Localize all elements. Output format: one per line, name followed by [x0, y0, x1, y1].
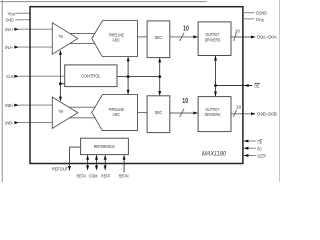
arrowhead T/B [244, 140, 249, 143]
wire output drivers A to D9A-D0A [231, 36, 251, 38]
wire DEC B to output drivers B [170, 112, 198, 114]
arrowhead control into DEC B [158, 91, 161, 96]
svg-text:DEC: DEC [155, 110, 162, 115]
arrowhead COM up [95, 155, 98, 160]
wire control to DECs vertical [159, 58, 161, 95]
wire INA- [19, 46, 52, 48]
arrowhead control into ADC A [127, 57, 130, 62]
wire CLK [19, 75, 65, 77]
wire INB- [19, 122, 52, 124]
svg-text:10: 10 [236, 104, 242, 109]
svg-text:SLEEP: SLEEP [257, 154, 266, 159]
bus slash output B [233, 110, 236, 117]
svg-text:REFERENCE: REFERENCE [94, 144, 115, 149]
svg-text:10: 10 [182, 96, 188, 105]
arrowhead COM down [95, 166, 98, 171]
pin label OE overline [254, 82, 260, 84]
node OE junction [214, 84, 217, 87]
wire output drivers B to D9B-D0B [231, 113, 251, 115]
svg-text:INB+: INB+ [5, 103, 13, 108]
bus slash DEC A to drivers [180, 33, 185, 41]
op-amp T/H B [52, 97, 78, 128]
wire ADC A to DEC A [138, 36, 148, 38]
arrowhead INA+ [14, 28, 19, 31]
wire control output horizontal [117, 76, 160, 78]
arrowhead control into DEC A [158, 58, 161, 63]
wire REFOUT horizontal [70, 146, 81, 148]
DEC B block [147, 96, 170, 133]
svg-text:ADC: ADC [112, 37, 120, 42]
arrowhead bus into output drivers A [193, 35, 198, 38]
output drivers B block [198, 97, 231, 132]
svg-text:T/H: T/H [58, 34, 63, 39]
wire REFIN [123, 156, 125, 173]
arrowhead OE into output drivers A [214, 56, 217, 61]
wire control to ADCs vertical [127, 57, 129, 94]
svg-text:INA+: INA+ [5, 27, 13, 32]
ADC B pipeline block [92, 95, 138, 131]
svg-text:10: 10 [183, 23, 189, 32]
arrowhead D9B-D0B [251, 112, 256, 115]
wire T/H A to ADC A lower [69, 43, 96, 45]
svg-text:OE: OE [254, 83, 259, 88]
wire OE to output drivers vertical [215, 56, 217, 96]
svg-text:REFN: REFN [77, 173, 86, 178]
wire DEC A to output drivers A [170, 36, 198, 38]
wire OVDD [243, 18, 254, 20]
svg-text:REFIN: REFIN [119, 173, 129, 178]
arrowhead INA- [14, 46, 19, 49]
arrowhead D9A-D0A [251, 36, 256, 39]
arrowhead clock into T/H A [59, 50, 62, 55]
arrowhead REFN up [86, 155, 89, 160]
arrowhead control into ADC B [127, 90, 130, 95]
svg-text:MAX1180: MAX1180 [202, 152, 227, 158]
svg-text:DRIVERS: DRIVERS [205, 112, 221, 117]
node control ADC junction [127, 75, 130, 78]
arrowhead REFP down [104, 166, 107, 171]
arrowhead SLEEP [244, 154, 249, 157]
svg-text:T/H: T/H [58, 109, 63, 114]
wire VDD [15, 12, 30, 14]
arrowhead INB+ [14, 104, 19, 107]
svg-text:COM: COM [89, 173, 98, 178]
reference block [81, 138, 129, 154]
wire clock vertical [59, 51, 61, 101]
control block [65, 65, 117, 87]
pin label T/B overline [260, 138, 262, 140]
wire T/B [244, 140, 256, 142]
arrowhead REFIN up [123, 155, 126, 160]
bus slash DEC B to drivers [180, 109, 185, 117]
svg-text:REFOUT: REFOUT [52, 167, 68, 172]
arrowhead OE into output drivers B [214, 92, 217, 97]
svg-text:VDD: VDD [8, 11, 16, 17]
wire COM [96, 155, 98, 170]
wire GND [15, 19, 30, 21]
arrowhead REFP up [104, 155, 107, 160]
svg-text:ADC: ADC [112, 112, 120, 117]
arrowhead bus into output drivers B [193, 112, 198, 115]
svg-text:DRIVERS: DRIVERS [205, 37, 221, 42]
wire REFOUT vertical [69, 147, 71, 170]
wire PD [244, 147, 256, 149]
wire OGND [243, 12, 254, 14]
arrowhead REFN down [86, 166, 89, 171]
op-amp T/H A [52, 23, 78, 54]
svg-text:CONTROL: CONTROL [81, 74, 101, 79]
svg-text:REFP: REFP [101, 173, 110, 178]
arrowhead REFOUT [68, 166, 71, 171]
wire REFP [104, 155, 106, 170]
wire REFN [87, 155, 89, 170]
arrowhead CLK [14, 75, 19, 78]
arrowhead INB- [14, 121, 19, 124]
node clock junction [59, 82, 62, 85]
svg-text:GND: GND [6, 17, 15, 22]
svg-text:INB-: INB- [5, 120, 13, 125]
svg-text:D9B–D0B: D9B–D0B [257, 112, 277, 117]
page border line right [279, 0, 281, 182]
wire T/H A to ADC A upper [69, 32, 96, 34]
svg-text:CLK: CLK [6, 74, 14, 79]
wire INA+ [19, 28, 52, 30]
svg-text:INA-: INA- [5, 45, 13, 50]
svg-text:D9A–D0A: D9A–D0A [257, 35, 277, 40]
node control DEC junction [158, 75, 161, 78]
wire clock tap to control [60, 83, 64, 85]
wire T/H B to ADC B lower [69, 117, 96, 119]
arrowhead OE into box [244, 84, 249, 87]
wire SLEEP [244, 155, 256, 157]
svg-text:OVDD: OVDD [256, 17, 265, 23]
outer box MAX1180 [30, 7, 243, 164]
DEC A block [147, 21, 170, 58]
svg-text:DEC: DEC [155, 35, 162, 40]
page border line top [0, 1, 207, 3]
svg-text:10: 10 [235, 29, 241, 34]
output drivers A block [198, 22, 231, 56]
arrowhead PD [244, 147, 249, 150]
wire INB+ [19, 104, 52, 106]
ADC A pipeline block [92, 21, 138, 57]
arrowhead clock into T/H B [59, 97, 62, 102]
wire OE horizontal [216, 85, 253, 87]
svg-text:PD: PD [257, 147, 262, 152]
wire ADC B to DEC B [138, 112, 148, 114]
wire T/H B to ADC B upper [69, 106, 96, 108]
bus slash output A [234, 33, 237, 41]
svg-text:OGND: OGND [256, 10, 268, 15]
page border line left [1, 0, 3, 182]
svg-text:T/B: T/B [257, 139, 262, 144]
